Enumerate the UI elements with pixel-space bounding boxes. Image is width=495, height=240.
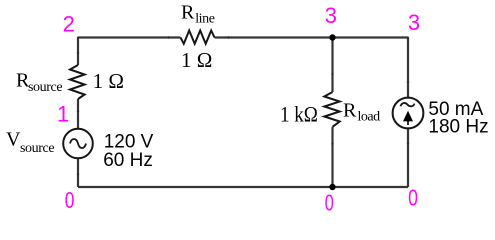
junction dot node 3 (top) — [329, 34, 335, 40]
pin nub R_line left — [167, 36, 169, 38]
svg-text:1 Ω: 1 Ω — [181, 48, 212, 72]
V_source sine wave — [70, 139, 86, 148]
current source arrow head — [403, 111, 413, 122]
wire top-left: node2 corner to R_line — [78, 36, 181, 38]
resistor R_line zigzag — [181, 31, 215, 44]
pin nub R_load top — [331, 73, 333, 75]
svg-text:source: source — [20, 141, 54, 156]
svg-text:1 kΩ: 1 kΩ — [280, 102, 318, 127]
svg-text:line: line — [195, 12, 215, 27]
wire top-right: R_line to node3 corner — [215, 36, 409, 38]
svg-text:3: 3 — [408, 10, 420, 35]
wire left branch upper (node 2 down to R_source) — [77, 37, 79, 65]
wire right branch upper (node 3 down to current source) — [407, 37, 409, 98]
wire middle branch lower (R_load to bottom rail) — [331, 127, 333, 187]
svg-text:load: load — [358, 109, 381, 124]
pin nub V_source bottom — [77, 173, 79, 175]
svg-text:V: V — [6, 128, 21, 150]
svg-text:1 Ω: 1 Ω — [93, 69, 124, 93]
svg-text:0: 0 — [325, 190, 334, 216]
svg-text:60 Hz: 60 Hz — [103, 150, 153, 171]
svg-text:0: 0 — [408, 185, 418, 211]
pin nub R_source top — [77, 52, 79, 54]
wire middle branch upper (junction to R_load) — [331, 38, 333, 93]
svg-text:0: 0 — [65, 187, 75, 213]
wire right branch lower (current source to bottom rail) — [407, 128, 409, 187]
pin nub R_source bottom / V_source top — [77, 110, 79, 112]
resistor R_source zigzag — [70, 65, 85, 99]
svg-text:180 Hz: 180 Hz — [428, 116, 488, 137]
junction dot node 0 (bottom) — [329, 184, 335, 190]
resistor R_load zigzag — [324, 92, 339, 127]
svg-text:R: R — [343, 100, 357, 122]
current source arrow stem — [407, 114, 409, 125]
wire bottom rail (node 0) — [78, 186, 408, 188]
V_source AC source circle — [63, 129, 93, 159]
current source tilde — [401, 103, 415, 106]
svg-text:R: R — [181, 2, 195, 24]
svg-text:2: 2 — [63, 11, 75, 36]
wire left branch middle (R_source to V_source) — [77, 99, 79, 129]
pin nub current source bottom — [407, 143, 409, 145]
pin nub R_line right — [227, 36, 229, 38]
svg-text:3: 3 — [325, 3, 337, 28]
svg-text:1: 1 — [57, 102, 69, 127]
svg-text:source: source — [28, 80, 62, 95]
wire left branch lower (V_source to bottom rail) — [77, 158, 79, 187]
pin nub R_load bottom — [331, 143, 333, 145]
pin nub current source top — [407, 81, 409, 83]
current source I1 circle — [393, 98, 424, 129]
